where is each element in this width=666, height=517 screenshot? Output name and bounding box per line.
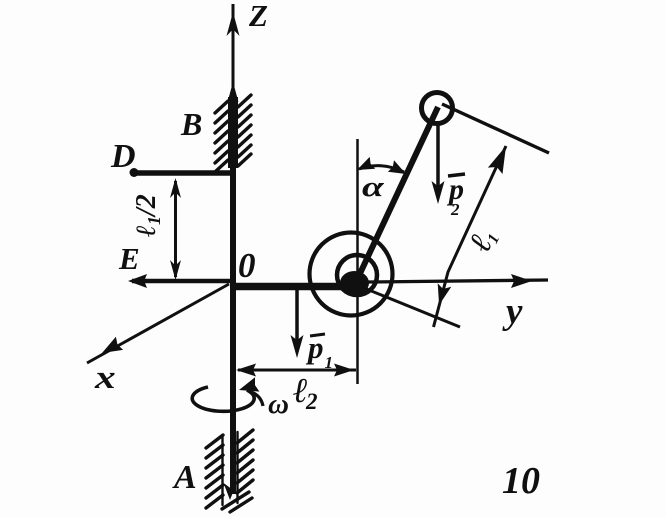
label P1 macron (310, 334, 325, 336)
omega rotation arc (192, 387, 254, 411)
dimension l1 top arrowhead (488, 146, 506, 174)
angle alpha arc (359, 166, 404, 172)
node Z-axis top arrowhead (227, 12, 240, 36)
wire thin vertical reference line (356, 139, 359, 384)
bearing B (215, 95, 251, 171)
wire rod D (134, 170, 233, 176)
svg-text:Z: Z (248, 0, 268, 33)
crank joint middle circle (337, 255, 377, 295)
svg-text:D: D (110, 138, 136, 175)
wire Z-axis thin line (232, 4, 235, 283)
svg-text:0: 0 (238, 246, 256, 285)
node D end blob (130, 168, 139, 177)
svg-text:B: B (180, 106, 202, 142)
dimension l2 left arrowhead (236, 364, 256, 377)
dimension l2 line (238, 369, 356, 372)
force P2 arrow (436, 122, 440, 196)
angle alpha right arrowhead (388, 160, 406, 174)
node Z-axis mid arrowhead above bearing B (228, 82, 239, 102)
extension line top (442, 104, 549, 153)
node E arrowhead (128, 274, 147, 288)
crank joint outer circle (310, 233, 393, 316)
svg-text:ℓ1/2: ℓ1/2 (131, 194, 164, 238)
node x arrowhead (102, 337, 123, 353)
angle alpha left arrowhead (357, 157, 375, 170)
label P2 macron (448, 174, 465, 176)
wire rod E (132, 279, 233, 284)
dimension l1/2 bottom arrowhead (170, 260, 181, 280)
omega arc arrowhead (239, 377, 259, 391)
svg-text:ω: ω (268, 388, 289, 420)
svg-text:10: 10 (502, 460, 540, 502)
svg-text:α: α (362, 171, 385, 203)
svg-text:A: A (172, 459, 197, 496)
svg-text:y: y (502, 291, 523, 332)
node y arrowhead (511, 274, 532, 288)
node shaft bottom tip (224, 483, 237, 500)
ball at rod end (422, 93, 453, 124)
dimension l2 right arrowhead (334, 364, 354, 377)
wire x-axis (87, 284, 229, 363)
svg-text:x: x (94, 360, 116, 396)
svg-text:E: E (118, 241, 140, 276)
force P1 arrow (295, 288, 299, 350)
crank joint hub (340, 271, 369, 295)
wire shaft AB (230, 95, 236, 494)
bearing A (206, 430, 253, 512)
dimension l1 line (434, 146, 507, 327)
dimension l1/2 line (174, 181, 177, 277)
wire rod joint to ball (356, 107, 438, 282)
extension line bottom (364, 288, 460, 327)
wire y-axis (368, 280, 548, 282)
dimension l1/2 top arrowhead (170, 178, 181, 198)
dimension l1 bottom arrowhead (438, 283, 452, 305)
omega arc tail (249, 391, 263, 406)
wire rod O to crank (236, 283, 348, 291)
